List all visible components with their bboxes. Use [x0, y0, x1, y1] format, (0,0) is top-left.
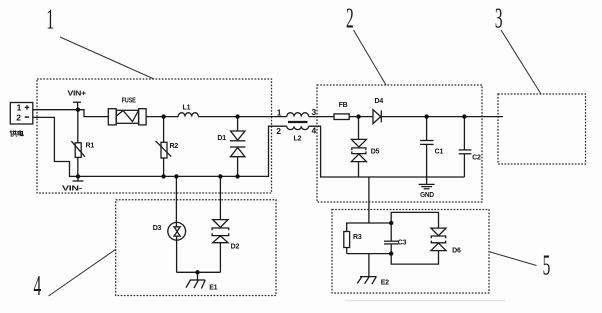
svg-text:FB: FB: [339, 102, 348, 109]
svg-text:VIN-: VIN-: [62, 186, 83, 193]
svg-text:1: 1: [277, 107, 282, 117]
svg-text:2: 2: [346, 3, 354, 34]
svg-text:3: 3: [312, 107, 317, 117]
svg-text:R3: R3: [353, 234, 362, 241]
svg-text:2: 2: [276, 126, 281, 136]
svg-text:D4: D4: [375, 98, 384, 105]
svg-text:L1: L1: [183, 104, 191, 111]
svg-text:5: 5: [543, 250, 551, 281]
svg-text:D2: D2: [231, 244, 240, 251]
svg-text:1: 1: [46, 4, 54, 35]
svg-text:E1: E1: [209, 285, 217, 292]
svg-text:GND: GND: [420, 192, 434, 199]
svg-text:4: 4: [34, 270, 42, 301]
svg-text:2: 2: [16, 113, 21, 123]
svg-text:D3: D3: [153, 225, 162, 232]
svg-text:C3: C3: [398, 239, 407, 246]
svg-text:1: 1: [17, 103, 22, 113]
svg-text:D6: D6: [452, 248, 461, 255]
svg-text:3: 3: [495, 3, 503, 34]
svg-text:E2: E2: [381, 279, 389, 286]
svg-text:L2: L2: [294, 136, 302, 143]
svg-text:D5: D5: [371, 148, 380, 155]
svg-text:C2: C2: [472, 155, 481, 162]
svg-text:4: 4: [312, 126, 317, 136]
svg-text:VIN+: VIN+: [68, 90, 87, 97]
svg-text:D1: D1: [217, 135, 226, 142]
svg-text:R1: R1: [86, 143, 95, 150]
svg-text:R2: R2: [170, 143, 179, 150]
svg-text:FUSE: FUSE: [122, 98, 137, 105]
svg-text:C1: C1: [435, 148, 444, 155]
